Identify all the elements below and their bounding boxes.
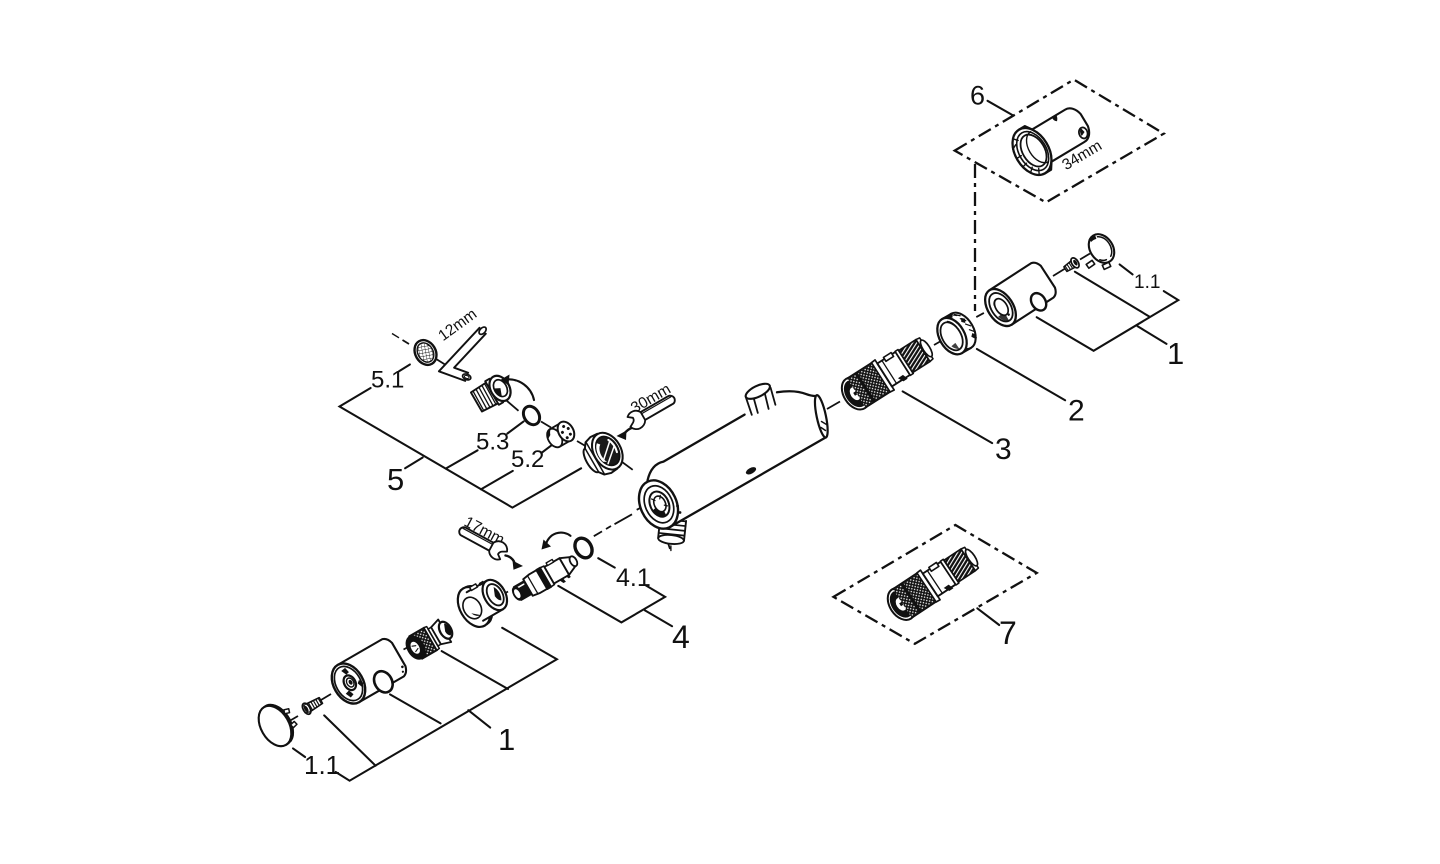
svg-text:1.1: 1.1: [1134, 272, 1160, 293]
svg-text:1.1: 1.1: [304, 750, 340, 780]
svg-text:6: 6: [970, 81, 985, 111]
svg-text:4.1: 4.1: [616, 564, 651, 592]
svg-text:4: 4: [672, 619, 690, 655]
svg-text:1: 1: [498, 722, 515, 757]
svg-text:3: 3: [995, 433, 1012, 466]
svg-text:5.2: 5.2: [511, 446, 544, 473]
svg-text:5: 5: [387, 462, 404, 497]
svg-text:5.3: 5.3: [476, 429, 509, 456]
svg-text:1: 1: [1167, 336, 1184, 371]
svg-text:2: 2: [1068, 395, 1085, 428]
svg-text:5.1: 5.1: [371, 367, 404, 394]
svg-text:7: 7: [999, 615, 1017, 651]
